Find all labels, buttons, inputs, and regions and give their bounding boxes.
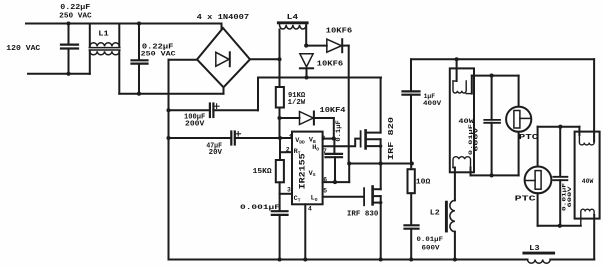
svg-text:250 VAC: 250 VAC [59,12,91,20]
svg-text:120 VAC: 120 VAC [6,45,41,53]
svg-text:L3: L3 [529,245,540,253]
svg-text:CT: CT [294,195,301,203]
svg-text:0.1µF: 0.1µF [335,120,342,142]
svg-text:15KΩ: 15KΩ [253,168,273,176]
svg-text:1/2W: 1/2W [288,99,306,107]
svg-text:L1: L1 [98,31,109,39]
svg-text:40W: 40W [582,178,594,185]
svg-text:10Ω: 10Ω [416,179,431,187]
svg-text:600V: 600V [566,186,573,208]
svg-text:7: 7 [323,148,327,155]
svg-text:40W: 40W [458,118,474,125]
svg-text:600V: 600V [473,127,480,152]
svg-text:20V: 20V [209,149,223,157]
svg-text:IRF 830: IRF 830 [347,210,379,218]
svg-text:4 x 1N4007: 4 x 1N4007 [197,14,250,22]
svg-text:VDD: VDD [295,137,305,145]
svg-text:600V: 600V [422,244,441,252]
svg-text:HO: HO [312,144,319,152]
svg-text:L2: L2 [430,210,441,218]
svg-text:IRF 820: IRF 820 [388,117,396,160]
svg-text:0.22µF: 0.22µF [60,4,90,12]
svg-text:0.001µF: 0.001µF [240,204,280,212]
svg-text:10KF6: 10KF6 [326,28,353,36]
svg-text:1: 1 [289,133,293,140]
svg-text:250 VAC: 250 VAC [141,51,176,59]
svg-text:200V: 200V [185,120,205,128]
svg-text:400V: 400V [423,100,442,108]
svg-text:0.01µF: 0.01µF [417,236,444,244]
svg-text:LO: LO [311,195,318,203]
svg-text:6: 6 [323,176,327,183]
svg-text:PTC: PTC [515,196,537,204]
svg-text:3: 3 [287,187,291,194]
svg-text:PTC: PTC [519,134,539,142]
svg-text:2: 2 [286,146,290,153]
svg-text:IR2155: IR2155 [300,153,308,189]
svg-text:VS: VS [309,170,316,178]
svg-text:8: 8 [321,135,325,142]
svg-text:5: 5 [323,187,327,194]
svg-text:L4: L4 [287,14,299,22]
svg-text:4: 4 [308,206,312,213]
svg-text:10KF6: 10KF6 [317,61,344,69]
svg-text:10KF4: 10KF4 [320,107,347,115]
